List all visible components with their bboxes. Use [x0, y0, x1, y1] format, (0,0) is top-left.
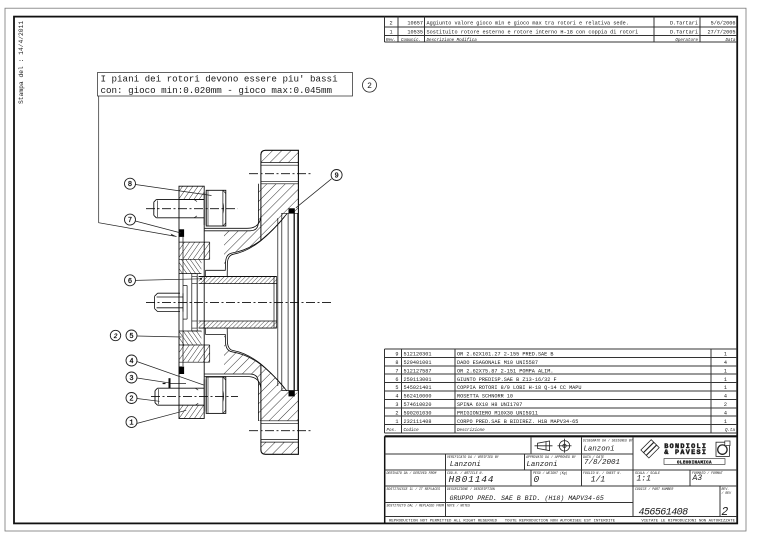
- svg-text:456561408: 456561408: [639, 508, 689, 519]
- svg-text:2: 2: [721, 506, 728, 519]
- svg-text:4: 4: [724, 360, 727, 366]
- svg-text:545021401: 545021401: [404, 385, 432, 391]
- svg-text:VERIFICATO DA / VERIFIED BY: VERIFICATO DA / VERIFIED BY: [447, 455, 500, 459]
- svg-text:1/1: 1/1: [591, 476, 606, 485]
- svg-text:SOSTITUITO DAL / REPLACED FROM: SOSTITUITO DAL / REPLACED FROM: [387, 503, 444, 507]
- svg-text:DERIVATO DA / DERIVED FROM: DERIVATO DA / DERIVED FROM: [387, 471, 437, 475]
- svg-text:OR 2.62X101.27 2-155 PRED.SAE: OR 2.62X101.27 2-155 PRED.SAE B: [457, 352, 554, 358]
- svg-text:Stampa del : 14/4/2011: Stampa del : 14/4/2011: [18, 21, 25, 104]
- svg-text:27/7/2005: 27/7/2005: [707, 29, 735, 35]
- svg-text:512127587: 512127587: [404, 368, 432, 374]
- svg-text:9: 9: [334, 173, 338, 181]
- svg-text:Data: Data: [725, 39, 736, 43]
- svg-text:Lanzoni: Lanzoni: [584, 446, 615, 454]
- svg-text:2: 2: [724, 402, 727, 408]
- svg-text:1: 1: [724, 385, 727, 391]
- svg-text:GIUNTO PREDISP.SAE B Z13-16/32: GIUNTO PREDISP.SAE B Z13-16/32 F: [457, 377, 557, 383]
- svg-text:PRIGIONIERO M10X30 UNI5911: PRIGIONIERO M10X30 UNI5911: [457, 410, 538, 416]
- svg-text:Lanzoni: Lanzoni: [527, 461, 558, 469]
- svg-text:2: 2: [129, 396, 133, 404]
- svg-text:4: 4: [395, 394, 398, 400]
- svg-text:7/8/2001: 7/8/2001: [584, 459, 620, 467]
- svg-text:5/6/2006: 5/6/2006: [711, 20, 736, 26]
- svg-text:SOSTITUISCE IL / IT REPLACES: SOSTITUISCE IL / IT REPLACES: [387, 487, 441, 491]
- svg-text:NOTE / NOTES: NOTE / NOTES: [447, 503, 470, 507]
- svg-text:574610020: 574610020: [404, 402, 432, 408]
- svg-text:OLEODINAMICA: OLEODINAMICA: [677, 461, 712, 465]
- svg-text:DESCRIZIONE / DESCRIPTION: DESCRIZIONE / DESCRIPTION: [447, 487, 495, 491]
- svg-text:OR 2.62X75.87 2-151 POMPA ALIM: OR 2.62X75.87 2-151 POMPA ALIM.: [457, 368, 554, 374]
- svg-text:2: 2: [367, 82, 372, 91]
- svg-text:REPRODUCTION NOT PERMITTED ALL: REPRODUCTION NOT PERMITTED ALL RIGHT RES…: [389, 519, 498, 523]
- svg-text:A3: A3: [692, 474, 703, 483]
- svg-text:562410000: 562410000: [404, 394, 432, 400]
- svg-text:Descrizione: Descrizione: [457, 428, 485, 433]
- svg-text:con: gioco min:0.020mm - gioco: con: gioco min:0.020mm - gioco max:0.045…: [101, 85, 333, 96]
- svg-text:3: 3: [129, 375, 133, 383]
- svg-text:TOUTE REPRODUCTION NON AUTORIS: TOUTE REPRODUCTION NON AUTORISEE EST INT…: [505, 519, 616, 523]
- svg-text:Descrizione Modifica: Descrizione Modifica: [427, 38, 478, 43]
- svg-text:9: 9: [395, 352, 398, 358]
- svg-text:1: 1: [395, 419, 398, 425]
- svg-text:2: 2: [395, 410, 398, 416]
- svg-text:/ REV: / REV: [722, 491, 733, 495]
- svg-text:CODICE / PART NUMBER: CODICE / PART NUMBER: [635, 487, 673, 491]
- svg-text:GRUPPO PRED. SAE B BID. (H18): GRUPPO PRED. SAE B BID. (H18) MAPV34-65: [450, 495, 604, 502]
- svg-text:Aggiunto valore gioco min e gi: Aggiunto valore gioco min e gioco max tr…: [427, 20, 629, 26]
- svg-text:ROSETTA SCHNORR 10: ROSETTA SCHNORR 10: [457, 394, 513, 400]
- svg-text:2: 2: [389, 20, 392, 26]
- svg-text:Codice: Codice: [404, 428, 420, 433]
- svg-text:8: 8: [395, 360, 398, 366]
- svg-text:Pos.: Pos.: [387, 429, 397, 433]
- svg-text:0: 0: [534, 474, 540, 485]
- svg-text:1: 1: [129, 420, 133, 428]
- svg-text:3: 3: [395, 402, 398, 408]
- svg-text:D.Tartari: D.Tartari: [670, 20, 698, 26]
- svg-text:6: 6: [128, 278, 132, 286]
- svg-text:4: 4: [129, 358, 133, 366]
- svg-text:D.Tartari: D.Tartari: [670, 29, 698, 35]
- svg-text:529401001: 529401001: [404, 360, 432, 366]
- svg-text:4: 4: [724, 410, 727, 416]
- svg-text:6: 6: [395, 377, 398, 383]
- svg-text:DADO ESAGONALE M10 UNI5587: DADO ESAGONALE M10 UNI5587: [457, 360, 538, 366]
- svg-text:Lanzoni: Lanzoni: [450, 461, 481, 469]
- svg-text:5: 5: [395, 385, 398, 391]
- svg-text:232111408: 232111408: [404, 419, 432, 425]
- svg-text:I piani dei rotori devono esse: I piani dei rotori devono essere piu' ba…: [101, 74, 339, 85]
- svg-text:5: 5: [129, 333, 133, 341]
- svg-text:1:1: 1:1: [637, 475, 652, 484]
- svg-text:512120301: 512120301: [404, 352, 432, 358]
- svg-text:& PAVESI: & PAVESI: [664, 449, 707, 457]
- svg-text:10657: 10657: [407, 20, 423, 26]
- svg-text:7: 7: [128, 217, 132, 225]
- svg-text:CORPO PRED.SAE B BIDIREZ. H1B: CORPO PRED.SAE B BIDIREZ. H1B MAPV34-65: [457, 419, 578, 425]
- svg-text:8: 8: [128, 181, 132, 189]
- svg-text:2: 2: [114, 333, 118, 340]
- svg-text:FOGLIO N. / SHEET N.: FOGLIO N. / SHEET N.: [583, 471, 621, 475]
- svg-text:COPPIA ROTORI 8/9 LOBI H-18 Q-: COPPIA ROTORI 8/9 LOBI H-18 Q-14 CC MAPU: [457, 385, 582, 391]
- svg-text:Sostituito rotore esterno e ro: Sostituito rotore esterno e rotore inter…: [427, 29, 639, 35]
- svg-text:4: 4: [724, 394, 727, 400]
- svg-text:DISEGNATO DA / DESIGNED BY: DISEGNATO DA / DESIGNED BY: [583, 439, 634, 443]
- svg-text:H801144: H801144: [449, 474, 495, 485]
- svg-text:VIETATE LE RIPRODUZIONI NON AU: VIETATE LE RIPRODUZIONI NON AUTORIZZATE: [641, 519, 735, 523]
- svg-text:1: 1: [724, 352, 727, 358]
- svg-text:250113001: 250113001: [404, 377, 432, 383]
- svg-text:1: 1: [724, 377, 727, 383]
- svg-text:1: 1: [724, 368, 727, 374]
- svg-text:Rev.: Rev.: [386, 39, 396, 43]
- svg-text:1: 1: [724, 419, 727, 425]
- svg-text:Q.ta: Q.ta: [725, 429, 736, 433]
- svg-text:7: 7: [395, 368, 398, 374]
- svg-text:590201030: 590201030: [404, 410, 432, 416]
- svg-text:1: 1: [389, 29, 392, 35]
- svg-text:Operatore: Operatore: [675, 39, 698, 43]
- svg-text:APPROVATO DA / APPROVED BY: APPROVATO DA / APPROVED BY: [525, 455, 577, 459]
- svg-text:10535: 10535: [407, 29, 423, 35]
- svg-text:Comunic.: Comunic.: [401, 38, 421, 43]
- svg-text:SPINA 6X10 H8 UNI1707: SPINA 6X10 H8 UNI1707: [457, 402, 522, 408]
